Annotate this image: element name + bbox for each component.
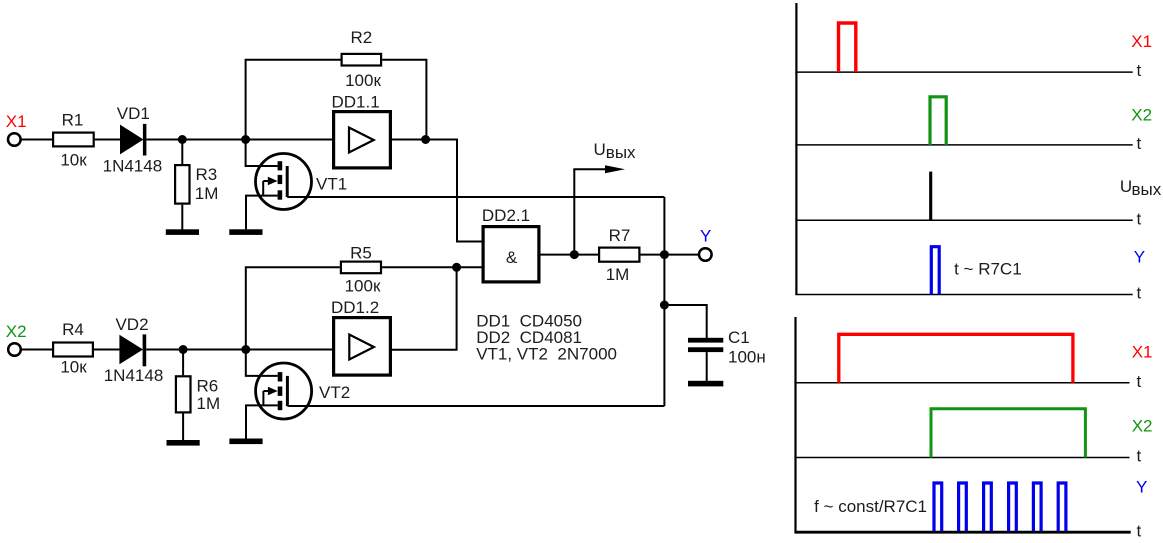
wire VT2 gate to rail (bottom) [287,405,664,407]
resistor R3 1M [175,165,218,204]
svg-text:Y: Y [700,226,711,245]
svg-text:R4: R4 [62,320,84,339]
svg-text:t ~ R7C1: t ~ R7C1 [954,260,1022,279]
svg-text:t: t [1137,447,1142,466]
trace 7 Y blue pulse train [934,483,1066,531]
wire to C1 [664,305,706,338]
trace 4 Y blue pulse [931,247,1145,295]
svg-text:VT2: VT2 [319,383,350,402]
svg-text:R1: R1 [62,111,84,130]
trace 4 Y baseline [795,284,1141,303]
trace 3 Uvyh spike [931,172,1162,221]
svg-text:1N4148: 1N4148 [104,366,164,385]
svg-text:R7: R7 [609,226,631,245]
wire to Uvyh arrow [573,169,575,254]
svg-text:X1: X1 [1131,32,1152,51]
wire R2 left leg [246,60,341,140]
node junction R2/VT1 drain [241,135,250,144]
resistor R1 10k [53,111,94,170]
trace 2 X2 baseline [795,134,1141,153]
svg-text:R6: R6 [197,376,219,395]
trace 1 X1 red pulse [839,23,1153,72]
svg-text:1N4148: 1N4148 [103,156,163,175]
and-gate DD2.1 [482,206,539,282]
diode VD1 1N4148 [103,104,163,175]
trace 5 X1 baseline [794,372,1141,391]
svg-text:R2: R2 [351,28,373,47]
trace 7 Y baseline [794,521,1141,540]
transistor VT2 2N7000 [246,350,350,439]
ground under C1 [688,381,723,387]
svg-text:1M: 1M [197,394,221,413]
svg-text:1M: 1M [195,184,219,203]
resistor R6 1M [176,376,220,413]
svg-text:t: t [1137,284,1142,303]
svg-text:X2: X2 [6,322,27,341]
resistor R5 100k [341,243,381,295]
wire DD1.1 output [392,140,482,242]
svg-text:вых: вых [606,143,636,162]
wire R1 to VD1 [95,139,121,141]
svg-text:X1: X1 [6,112,27,131]
ground under VT1 [229,229,262,235]
ground under R3 [166,229,199,235]
trace 5 X1 red pulse [839,334,1153,383]
trace 3 Uvyh baseline [795,209,1141,228]
diode VD2 1N4148 [104,315,164,385]
svg-text:1M: 1M [606,265,630,284]
svg-text:100к: 100к [345,71,381,90]
svg-text:VT1: VT1 [316,175,347,194]
wire R2 right leg [382,60,426,140]
svg-text:DD1.1: DD1.1 [332,92,380,111]
trace 2 X2 green pulse [930,97,1152,145]
node junction DD1.1 out / R2 [421,135,430,144]
node X1 terminal [6,112,27,146]
svg-text:Y: Y [1136,477,1147,496]
wire to R3 [181,140,183,165]
op-amp buffer DD1.2 [331,298,390,375]
svg-text:R3: R3 [196,165,218,184]
node junction R7 out / rail [660,250,669,259]
svg-text:100к: 100к [345,277,381,296]
wire DD1.2 output [392,267,457,349]
svg-text:VD1: VD1 [117,104,150,123]
svg-text:10к: 10к [60,357,87,376]
wire X1 to R1 [21,139,53,141]
resistor R2 100k [342,28,382,90]
node junction R5/VT2 drain [241,345,250,354]
wire R5 left leg [246,267,340,349]
svg-text:R5: R5 [350,243,372,262]
svg-text:DD2.1: DD2.1 [482,206,530,225]
wire VT1 gate to rail [287,196,664,198]
ground under R6 [167,440,200,446]
svg-text:Y: Y [1134,248,1145,267]
svg-text:вых: вых [1132,180,1162,199]
svg-text:DD1.2: DD1.2 [331,298,379,317]
svg-text:t: t [1137,209,1142,228]
node junction R5/DD1.2 out/DD2 in2 [452,263,461,272]
op-amp buffer DD1.1 [332,92,391,167]
svg-text:X2: X2 [1131,106,1152,125]
svg-text:U: U [1120,177,1132,196]
trace 6 X2 green pulse [931,409,1152,458]
wire R6 to ground [182,414,184,441]
resistor R4 10k [53,320,93,376]
svg-text:f ~ const/R7C1: f ~ const/R7C1 [814,497,927,516]
wire X2 to R4 [21,349,52,351]
svg-text:&: & [506,248,518,267]
wire VD1 to DD1.1 input [146,139,332,141]
parts list text [476,312,617,364]
timing diagram 1 axis [795,3,797,295]
svg-text:VD2: VD2 [115,315,148,334]
svg-text:X1: X1 [1132,343,1153,362]
wire R4 to VD2 [94,349,120,351]
ground under VT2 [229,439,262,445]
node junction VD1/R3 [178,135,187,144]
wire R3 to ground [181,205,183,230]
capacitor C1 100n [688,328,766,381]
timing diagram 2 axis [794,317,796,532]
wire R5 right leg [382,266,457,268]
node junction VD2/R6 [179,345,188,354]
resistor R7 1M [599,226,639,284]
node X2 terminal [6,322,27,356]
wire DD2.1 output to R7 [541,254,599,256]
wire DD2.1 input 2 [457,266,482,268]
node Y terminal [699,226,712,260]
svg-text:100н: 100н [728,348,766,367]
trace 6 X2 baseline [794,447,1141,466]
wire feedback rail vertical [663,197,665,406]
svg-text:VT1, VT2 2N7000: VT1, VT2 2N7000 [476,344,617,363]
trace 1 X1 baseline [795,61,1141,80]
svg-text:t: t [1137,134,1142,153]
wire to R6 [182,350,184,376]
svg-text:t: t [1137,61,1142,80]
svg-text:X2: X2 [1132,417,1153,436]
wire R7 to Y [641,254,699,256]
svg-text:t: t [1137,521,1142,540]
svg-text:C1: C1 [728,328,750,347]
node Uvyh arrow [573,140,636,173]
svg-text:t: t [1137,372,1142,391]
node junction DD2 out / Uvyh [570,250,579,259]
node junction C1 branch [660,301,669,310]
wire VD2 to DD1.2 input [146,349,332,351]
svg-text:U: U [594,140,606,159]
svg-text:10к: 10к [60,151,87,170]
transistor VT1 2N7000 [246,140,348,230]
